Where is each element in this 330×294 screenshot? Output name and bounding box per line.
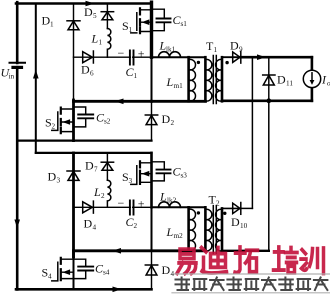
- arrow on top rail: [86, 1, 95, 7]
- svg-text:D: D: [162, 263, 171, 277]
- svg-text:m2: m2: [174, 232, 184, 240]
- wire D6 horizontal: [74, 56, 152, 58]
- transformer T1 box left: [151, 57, 153, 101]
- transformer T2 dot secondary: [223, 212, 226, 215]
- svg-text:s4: s4: [103, 269, 110, 277]
- transformer T1 dot primary: [197, 61, 200, 64]
- transformer T1 winding A: [187, 57, 190, 101]
- inductor L1: [107, 29, 110, 58]
- diode D2: [151, 101, 153, 140]
- svg-text:D: D: [277, 73, 286, 87]
- svg-text:2: 2: [134, 222, 138, 230]
- wire S2 bus: [72, 100, 75, 141]
- transistor S3: [131, 161, 152, 184]
- capacitor Cs3: [152, 162, 171, 181]
- transformer T1 top wire: [152, 56, 206, 58]
- watermark red text yiditop: [177, 247, 324, 273]
- svg-text:6: 6: [90, 70, 94, 78]
- svg-text:1: 1: [129, 26, 133, 34]
- transformer T2 box left: [151, 207, 153, 251]
- wire S4 bus: [72, 251, 75, 257]
- wire mid rail: [36, 152, 152, 154]
- wire S1 bus: [150, 2, 153, 57]
- svg-text:+: +: [138, 47, 145, 61]
- svg-text:5: 5: [93, 12, 97, 20]
- arrow on bottom rail: [113, 287, 122, 293]
- svg-text:7: 7: [94, 166, 98, 174]
- wire output top: [222, 56, 241, 58]
- svg-text:11: 11: [286, 80, 293, 88]
- arrow on phase2 return: [112, 248, 121, 254]
- wire D5 stub: [106, 4, 108, 29]
- transformer T2 secondary: [221, 208, 224, 250]
- wire left rail: [16, 2, 19, 289]
- transistor S1: [131, 8, 152, 33]
- svg-text:D: D: [162, 112, 171, 126]
- svg-text:in: in: [9, 73, 15, 81]
- svg-text:lk2: lk2: [167, 197, 177, 205]
- watermark gray rule bottom: [172, 292, 330, 294]
- wire phase1 return: [74, 100, 152, 103]
- diode D6: [83, 51, 94, 63]
- transformer T1 secondary: [221, 57, 224, 101]
- capacitor Cs2: [74, 107, 94, 127]
- transformer T1 bottom wire: [152, 100, 206, 103]
- wire top rail: [16, 2, 152, 5]
- svg-text:L: L: [166, 75, 174, 89]
- wire riser D10: [251, 57, 253, 208]
- arrow S3 body: [142, 171, 150, 177]
- svg-text:4: 4: [93, 224, 97, 232]
- diode D11: [263, 75, 275, 85]
- inductor Llk1: [159, 52, 181, 57]
- wire D4h horizontal: [74, 206, 152, 208]
- wire phase2 return: [74, 249, 206, 252]
- transformer T2 dot primary: [197, 211, 200, 214]
- wire T2 secondary bottom: [222, 250, 269, 252]
- svg-text:2: 2: [101, 192, 105, 200]
- watermark gray text: [176, 278, 328, 291]
- wire output bottom: [222, 100, 312, 103]
- junction dot output: [266, 98, 271, 103]
- svg-text:s2: s2: [104, 118, 111, 126]
- wire T2 secondary top: [222, 207, 241, 209]
- arrow down on left rail: [14, 220, 20, 229]
- svg-text:D: D: [85, 159, 94, 173]
- wire bottom rail: [16, 288, 152, 291]
- transformer T1 dot secondary: [225, 61, 228, 64]
- transformer T2 winding B: [204, 207, 207, 251]
- svg-text:+: +: [138, 197, 145, 211]
- watermark gray rule top: [172, 273, 330, 275]
- diode D10: [233, 203, 241, 215]
- svg-text:D: D: [84, 5, 93, 19]
- svg-text:1: 1: [99, 39, 103, 47]
- svg-text:s1: s1: [181, 20, 188, 28]
- transformer T1 core: [213, 56, 216, 104]
- wire input column: [35, 4, 37, 153]
- transistor S4: [52, 258, 74, 281]
- svg-text:1: 1: [50, 21, 54, 29]
- svg-text:D: D: [231, 215, 240, 229]
- svg-text:s3: s3: [181, 172, 188, 180]
- diode D4 vertical column: [151, 251, 153, 289]
- capacitor C1: [129, 51, 152, 65]
- svg-text:2: 2: [171, 119, 175, 127]
- inductor L2: [107, 180, 110, 207]
- svg-text:D: D: [81, 63, 90, 77]
- transformer T2 core: [213, 206, 216, 254]
- source Io: [303, 70, 320, 87]
- capacitor Cs4: [74, 259, 94, 278]
- diode D7: [101, 162, 113, 170]
- svg-text:3: 3: [57, 177, 61, 185]
- char xun: [301, 250, 307, 271]
- svg-text:−: −: [118, 46, 125, 60]
- diode D9: [233, 51, 241, 63]
- svg-text:4: 4: [48, 273, 52, 281]
- svg-text:1: 1: [134, 72, 138, 80]
- diode D5: [101, 12, 113, 20]
- arrow S1 body: [142, 19, 150, 25]
- svg-text:D: D: [48, 170, 57, 184]
- svg-text:3: 3: [129, 177, 133, 185]
- wire riser output2: [268, 101, 270, 251]
- svg-text:D: D: [230, 39, 239, 53]
- wire D7 stub: [106, 153, 108, 180]
- wire output right: [311, 57, 314, 101]
- svg-text:L: L: [166, 225, 174, 239]
- svg-text:1: 1: [214, 46, 218, 54]
- wire output top thick: [241, 56, 312, 59]
- capacitor Cs1: [152, 9, 171, 31]
- diode D3: [67, 171, 80, 180]
- diode D11 column: [268, 57, 270, 101]
- wire D1 column: [73, 4, 75, 102]
- svg-text:L: L: [91, 32, 99, 46]
- wire S2S4 bus lower: [72, 153, 75, 257]
- svg-text:2: 2: [52, 123, 56, 131]
- transformer T2 winding A: [187, 207, 190, 251]
- wire D10 to riser: [241, 207, 253, 209]
- svg-text:2: 2: [216, 200, 220, 208]
- wire ground return: [17, 140, 151, 142]
- arrow S4 body: [62, 269, 70, 275]
- svg-text:L: L: [93, 185, 101, 199]
- diode D4 vertical: [145, 265, 157, 275]
- arrow S2 body: [62, 119, 70, 125]
- char tuo: [235, 247, 245, 273]
- svg-text:D: D: [84, 217, 93, 231]
- transistor S2: [52, 108, 74, 134]
- svg-text:L: L: [159, 190, 167, 204]
- char di: [202, 248, 227, 273]
- inductor Llk2: [159, 202, 181, 208]
- diode D1: [67, 21, 80, 30]
- arrow on phase1 return: [115, 99, 124, 105]
- capacitor C2: [130, 201, 134, 215]
- diode D4 horizontal: [83, 201, 94, 213]
- arrow on output top: [257, 54, 266, 60]
- svg-text:−: −: [118, 196, 125, 210]
- battery Uin: [10, 63, 26, 68]
- char pei: [274, 247, 285, 270]
- svg-text:9: 9: [239, 46, 243, 54]
- svg-text:10: 10: [240, 222, 248, 230]
- transformer T1 winding B: [204, 57, 207, 101]
- svg-text:lk1: lk1: [166, 46, 176, 54]
- transformer T2 top wire: [152, 206, 206, 208]
- char yi: [180, 249, 194, 258]
- arrow up on input column: [33, 70, 39, 79]
- wire S3 bus: [150, 153, 153, 207]
- svg-text:m1: m1: [174, 82, 184, 90]
